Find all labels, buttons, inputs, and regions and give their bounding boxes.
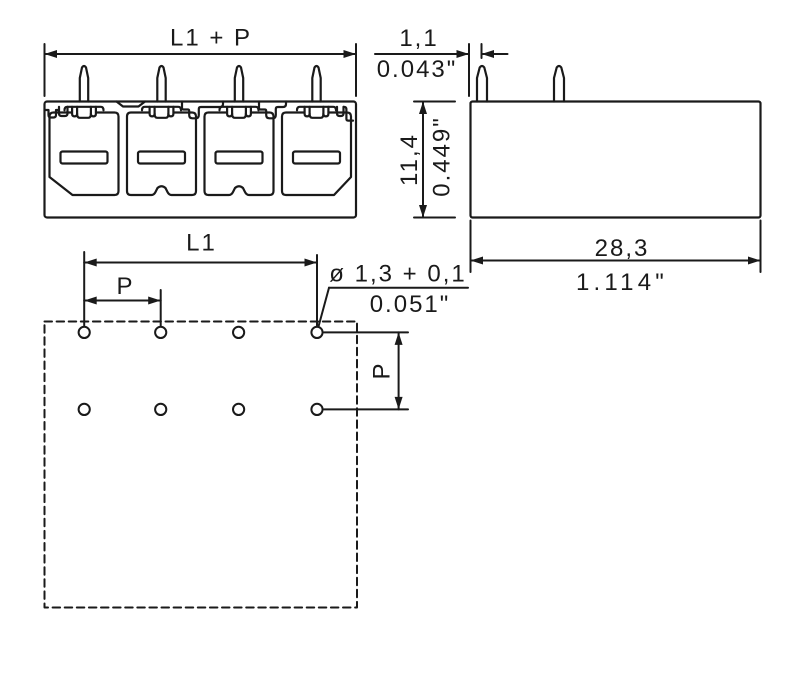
extension line hole2 [160,290,162,326]
moulding shelf at pin 2 [142,107,181,111]
contact chamber 3 outline [205,113,274,196]
extension line left [44,44,46,96]
extra tooth cell4 right [337,107,344,116]
drill hole [233,404,244,415]
left tooth pin 3 [227,107,232,117]
extension line row1 [324,331,408,333]
extension line right [760,221,762,273]
solder pin 1 (front view) [80,66,88,102]
extension line right [355,44,357,96]
contact chamber 2 outline [127,113,196,196]
svg-text:28,3: 28,3 [595,235,650,262]
drill hole [311,327,322,338]
svg-text:L1 + P: L1 + P [170,25,252,52]
extension line left [470,221,472,273]
right tooth pin 4 [323,107,328,117]
contact slot 2 [138,152,185,164]
left edge pocket [45,110,59,118]
drill hole [155,404,166,415]
pocket under pin 4 [310,114,324,118]
extension line top [414,101,455,103]
funnel channel between chambers [182,102,223,119]
dimension line P [84,300,161,302]
dimension line P vertical [398,332,400,409]
contact slot 4 [293,152,340,164]
svg-text:0.449": 0.449" [429,116,456,197]
dimension line 11,4 [422,102,424,218]
moulding shelf at pin 3 [220,107,259,111]
contact chamber 4 outline [282,113,351,196]
drill hole [311,404,322,415]
dimension line L1 [84,262,317,264]
extension line hole1 [83,252,85,326]
extension line pin left edge [468,44,470,96]
contact slot 1 [61,152,108,164]
svg-text:L1: L1 [186,230,217,257]
callout underline [329,287,468,289]
solder pin (side view) [477,66,487,102]
pocket under pin 1 [77,114,91,118]
left tooth pin 4 [305,107,310,117]
svg-text:1.114": 1.114" [576,269,668,296]
dimension line / leader for 1,1 [375,53,469,55]
drill hole [233,327,244,338]
connector body (front view) [45,102,357,218]
connector body (side view) [471,102,761,218]
right tooth pin 1 [91,107,96,117]
contact chamber 1 outline [50,113,119,196]
right tooth pin 2 [168,107,173,117]
svg-text:P: P [116,273,134,300]
pocket under pin 3 [232,114,246,118]
left tooth pin 2 [150,107,155,117]
right tooth pin 3 [246,107,251,117]
drill hole [155,327,166,338]
svg-text:0.051": 0.051" [370,291,451,318]
callout leader to hole [319,288,330,327]
extension line hole4 [316,255,318,326]
contact slot 3 [216,152,263,164]
right edge staircase [344,107,353,121]
top recess between pin1 and pin2 [117,102,146,107]
extension line pin right edge [481,44,483,58]
svg-text:ø 1,3 + 0,1: ø 1,3 + 0,1 [329,261,466,288]
svg-text:0.043": 0.043" [377,56,458,83]
solder pin 3 (front view) [235,66,243,102]
drill hole [79,404,90,415]
left tooth pin 1 [72,107,77,117]
PCB outline (dashed) [45,322,358,608]
solder pin (side view) [554,66,564,102]
extra tooth cell1 left [59,107,68,116]
svg-text:P: P [369,361,396,379]
pocket under pin 2 [155,114,169,118]
moulding shelf at pin 4 [297,107,336,111]
moulding shelf at pin 1 [65,107,104,111]
extension line row2 [324,408,408,410]
solder pin 2 (front view) [157,66,165,102]
solder pin 4 (front view) [312,66,320,102]
dimension line 28,3 [471,260,761,262]
svg-text:1,1: 1,1 [399,25,438,52]
svg-text:11,4: 11,4 [396,133,423,186]
funnel channel between chambers [259,102,286,119]
extension line bottom [414,217,455,219]
drill hole [79,327,90,338]
dimension line L1 + P [45,53,357,55]
